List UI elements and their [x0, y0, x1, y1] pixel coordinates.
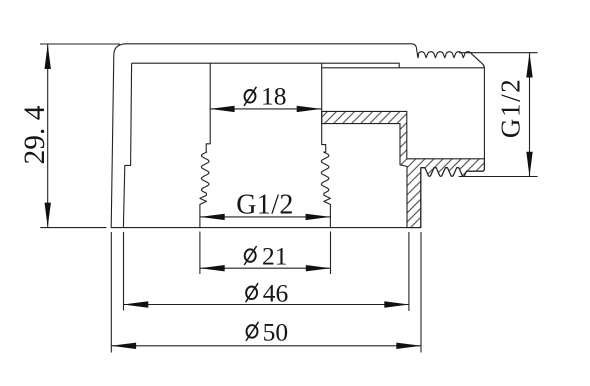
inner top line 2 (cavity top) [322, 67, 485, 69]
dimension phi18 line [210, 108, 322, 110]
fitting body outer profile with male thread [111, 44, 484, 228]
dimension 29.4 [40, 43, 120, 45]
svg-text:50: 50 [263, 317, 289, 346]
dimension phi46 line [124, 304, 410, 306]
dimension G1/2 bottom line [200, 216, 331, 218]
bore left wall with internal thread [200, 63, 210, 227]
phi symbols [244, 87, 258, 341]
dimension phi50 line [111, 345, 421, 347]
svg-text:21: 21 [262, 241, 288, 270]
svg-text:29. 4: 29. 4 [19, 105, 51, 164]
hatched section (cut material, staircase region) [322, 111, 485, 227]
inner left wall with step [123, 63, 131, 227]
svg-text:18: 18 [261, 82, 287, 111]
svg-text:G1/2: G1/2 [236, 190, 294, 221]
arrowheads [45, 44, 51, 69]
svg-text:G1/2: G1/2 [496, 78, 526, 138]
svg-text:46: 46 [263, 278, 289, 307]
bore right wall with internal thread [321, 63, 330, 227]
inner top line 1 [132, 63, 400, 68]
dimension G1/2 right: ext + line [459, 52, 538, 54]
dimension phi21 line [200, 267, 331, 269]
extension lines below body [110, 232, 112, 353]
